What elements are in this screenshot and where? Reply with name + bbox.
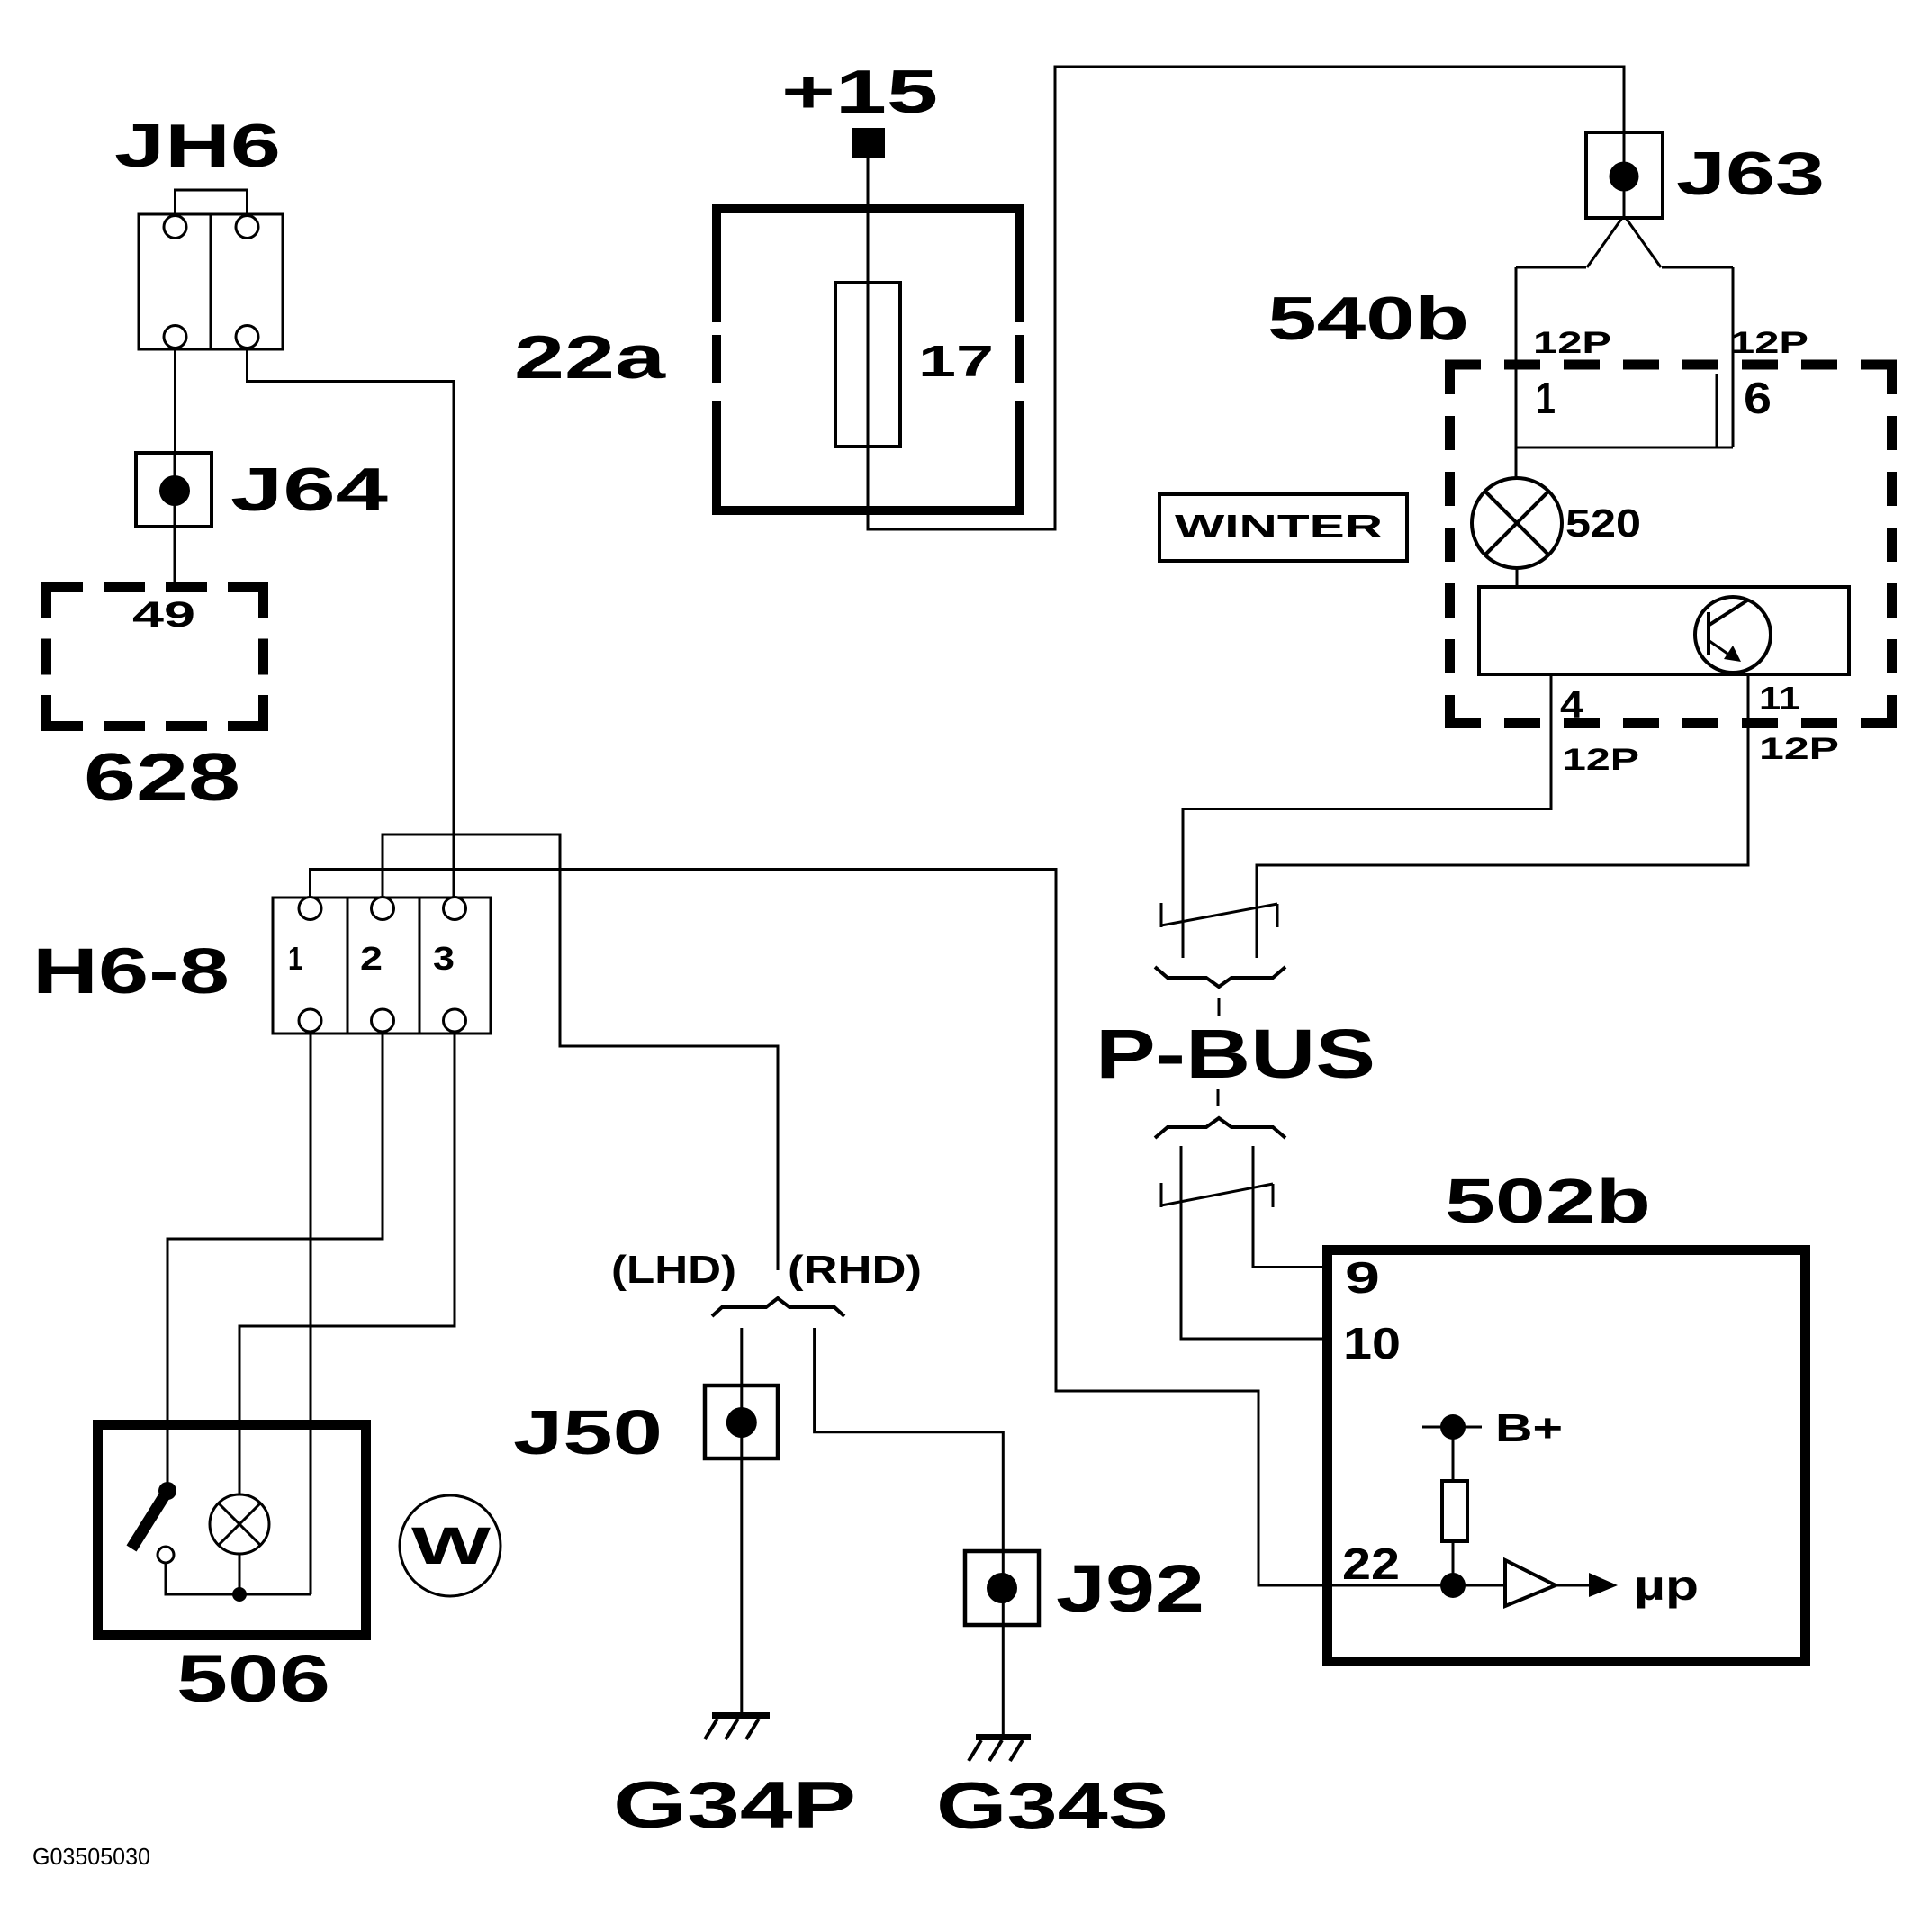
dash above P-BUS — [1218, 998, 1221, 1016]
svg-text:G34S: G34S — [936, 1770, 1168, 1843]
brace upper of P-BUS — [1155, 967, 1285, 987]
connector JH6 terminal A2 — [236, 216, 258, 239]
wire H6-8 pin 3 to 506 lamp — [239, 1032, 455, 1494]
wire J50 to ground G34P — [740, 1458, 743, 1713]
lamp 520 — [1472, 478, 1562, 568]
connector JH6 bridge link — [176, 190, 248, 214]
wire B+ to resistor — [1452, 1427, 1455, 1481]
wire amplifier to arrow — [1556, 1584, 1592, 1587]
connector H6-8 terminal 2 bottom — [372, 1009, 394, 1032]
connector H6-8 terminal 1 bottom — [299, 1009, 321, 1032]
svg-text:1: 1 — [288, 940, 302, 977]
switch-lamp unit 506 box — [98, 1425, 366, 1636]
component 628 dashed box — [41, 582, 268, 731]
connector JH6 terminal B1 — [164, 326, 186, 348]
svg-text:+15: +15 — [781, 58, 938, 126]
svg-text:H6-8: H6-8 — [32, 936, 230, 1007]
svg-text:J92: J92 — [1056, 1551, 1204, 1626]
svg-text:520: 520 — [1565, 501, 1641, 546]
wire +15 through fuse 17 to J63 — [868, 67, 1624, 529]
wire JH6 pin B2 to H6-8 pin 3 — [248, 348, 455, 898]
svg-text:49: 49 — [132, 595, 195, 635]
fuse 17 body — [835, 283, 900, 447]
power terminal +15 symbol — [852, 128, 885, 158]
svg-text:540b: 540b — [1267, 284, 1469, 353]
arrow head to microprocessor — [1589, 1573, 1618, 1597]
twisted pair symbol lower — [1161, 1183, 1273, 1207]
svg-text:µp: µp — [1634, 1562, 1699, 1609]
fuse box 22a dashed border — [712, 204, 1024, 515]
svg-text:6: 6 — [1744, 375, 1772, 423]
wire H6-8 pin 1 to 502b pin 22 — [311, 870, 1454, 1586]
wire H6-8 pin 1 to 506 — [310, 1032, 312, 1594]
svg-text:4: 4 — [1560, 683, 1584, 726]
svg-text:B+: B+ — [1495, 1406, 1563, 1450]
blower motor symbol — [1695, 597, 1771, 673]
splice J64 — [136, 453, 388, 527]
wire P-BUS to 502b pin 10 — [1181, 1146, 1323, 1339]
connector H6-8 terminal 1 top — [299, 898, 321, 920]
svg-text:12P: 12P — [1759, 732, 1839, 766]
connector H6-8 terminal 3 top — [444, 898, 466, 920]
wire H6-8 pin 2 to LHD/RHD split — [383, 835, 778, 1270]
component 540b dashed box — [1445, 360, 1897, 728]
splice J92 — [965, 1551, 1204, 1626]
WINTER box — [1159, 494, 1407, 561]
brace lower of P-BUS — [1155, 1118, 1285, 1138]
wire node to amplifier — [1453, 1584, 1505, 1587]
svg-text:2: 2 — [360, 940, 383, 977]
junction node at pin 22 — [1440, 1573, 1466, 1598]
brace LHD/RHD split — [712, 1298, 844, 1316]
wire H6-8 pin 2 to 506 switch — [167, 1032, 383, 1483]
svg-text:G34P: G34P — [613, 1769, 856, 1842]
svg-text:12P: 12P — [1533, 326, 1611, 360]
connector JH6 terminal B2 — [236, 326, 258, 348]
connector JH6 terminal A1 — [164, 216, 186, 239]
svg-text:G03505030: G03505030 — [32, 1843, 150, 1870]
svg-text:P-BUS: P-BUS — [1096, 1016, 1375, 1093]
svg-text:WINTER: WINTER — [1175, 508, 1383, 545]
svg-text:J64: J64 — [230, 456, 388, 524]
svg-text:10: 10 — [1343, 1320, 1401, 1368]
svg-text:(RHD): (RHD) — [788, 1248, 922, 1292]
svg-text:J50: J50 — [513, 1397, 663, 1467]
junction dot in 506 — [232, 1587, 247, 1602]
amplifier buffer — [1505, 1560, 1556, 1606]
svg-text:22a: 22a — [514, 323, 667, 392]
svg-text:628: 628 — [84, 739, 240, 815]
wire J63 fanout to connector 540b — [1516, 218, 1733, 267]
connector H6-8 body — [273, 898, 491, 1034]
svg-text:506: 506 — [176, 1641, 330, 1716]
svg-text:22: 22 — [1342, 1540, 1400, 1589]
wire switch to common in 506 — [166, 1563, 311, 1594]
control module 502b box — [1328, 1250, 1806, 1662]
svg-text:J63: J63 — [1676, 140, 1825, 208]
svg-text:W: W — [411, 1517, 491, 1575]
switch inside 506 — [131, 1482, 176, 1563]
svg-text:12P: 12P — [1562, 743, 1639, 777]
wire connector to lamp 520 — [1515, 447, 1518, 478]
wire 540b pin 4 to P-BUS — [1183, 674, 1551, 958]
connector H6-8 terminal 3 bottom — [444, 1009, 466, 1032]
wiper symbol W — [400, 1495, 501, 1596]
svg-text:(LHD): (LHD) — [611, 1248, 736, 1292]
svg-text:9: 9 — [1345, 1254, 1380, 1303]
svg-text:JH6: JH6 — [114, 112, 281, 180]
wire J92 to ground G34S — [1002, 1625, 1005, 1735]
svg-text:3: 3 — [433, 940, 455, 977]
svg-text:1: 1 — [1536, 375, 1556, 423]
splice J63 — [1586, 132, 1825, 218]
lamp inside 506 — [210, 1494, 269, 1554]
resistor in 502b — [1442, 1481, 1467, 1541]
wire resistor to node — [1452, 1541, 1455, 1585]
wire lamp to blower motor — [1516, 568, 1519, 587]
wire LHD to J50 — [740, 1328, 743, 1386]
splice J50 — [513, 1386, 778, 1467]
wire 540b pin 11 to P-BUS — [1257, 674, 1748, 958]
svg-text:502b: 502b — [1445, 1166, 1651, 1236]
node B+ — [1422, 1406, 1563, 1450]
wire P-BUS to 502b pin 9 — [1253, 1146, 1323, 1268]
ground G34P symbol — [705, 1716, 770, 1740]
ground G34S symbol — [969, 1738, 1031, 1762]
wire JH6 pin B1 to J64 — [174, 348, 176, 453]
wire J64 to 628 — [174, 527, 176, 584]
connector H6-8 terminal 2 top — [372, 898, 394, 920]
connector JH6 body — [139, 214, 283, 349]
svg-text:11: 11 — [1759, 680, 1800, 717]
blower motor box — [1479, 587, 1849, 674]
twisted pair symbol upper — [1161, 903, 1277, 927]
wire lamp to common in 506 — [239, 1554, 241, 1594]
dash below P-BUS — [1217, 1089, 1220, 1106]
wire RHD to J92 — [815, 1328, 1004, 1551]
svg-text:12P: 12P — [1730, 326, 1808, 360]
svg-text:17: 17 — [918, 338, 994, 386]
connector 12P inside 540b — [1516, 267, 1733, 447]
